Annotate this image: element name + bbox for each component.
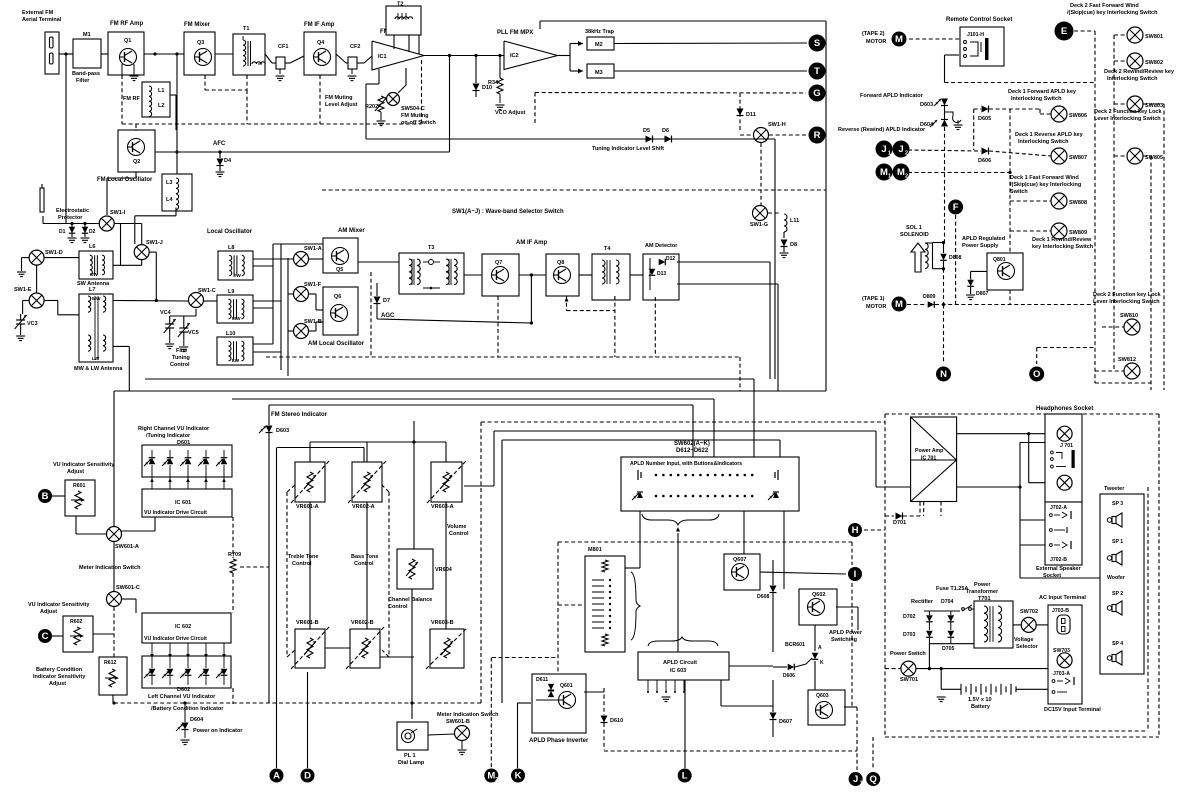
svg-text:D611: D611 xyxy=(536,677,548,683)
svg-text:Control: Control xyxy=(292,561,312,567)
svg-text:SW1-H: SW1-H xyxy=(768,122,786,128)
svg-text:D603: D603 xyxy=(276,428,289,434)
svg-text:D13: D13 xyxy=(657,271,666,277)
svg-text:BCR601: BCR601 xyxy=(785,642,805,648)
svg-text:K: K xyxy=(515,771,522,782)
svg-text:C: C xyxy=(42,631,49,642)
svg-text:Electrostatic: Electrostatic xyxy=(56,208,89,214)
svg-text:A: A xyxy=(818,645,822,651)
svg-text:2: 2 xyxy=(905,151,908,157)
svg-text:2: 2 xyxy=(905,174,908,180)
svg-text:Q4: Q4 xyxy=(317,40,325,46)
svg-text:SP 4: SP 4 xyxy=(1112,641,1123,647)
svg-text:L11: L11 xyxy=(790,218,799,224)
svg-text:D612~D622: D612~D622 xyxy=(676,448,709,454)
svg-text:VR602-A: VR602-A xyxy=(352,504,375,510)
svg-text:J: J xyxy=(898,144,903,155)
svg-text:L6: L6 xyxy=(89,244,95,250)
svg-text:APLD Power: APLD Power xyxy=(829,630,863,636)
svg-text:J703-B: J703-B xyxy=(1052,608,1069,614)
svg-text:Volume: Volume xyxy=(447,524,466,530)
svg-text:A: A xyxy=(273,771,280,782)
svg-text:MOTOR: MOTOR xyxy=(866,304,886,310)
svg-text:AM Detector: AM Detector xyxy=(645,243,678,249)
svg-text:MW: MW xyxy=(92,296,101,302)
svg-text:Interlocking Switch: Interlocking Switch xyxy=(1107,76,1158,82)
svg-text:FM RF Amp: FM RF Amp xyxy=(110,21,143,27)
svg-text:SOL 1: SOL 1 xyxy=(906,225,922,231)
svg-text:SW808: SW808 xyxy=(1069,200,1087,206)
svg-text:FM Muting: FM Muting xyxy=(325,95,353,101)
svg-text:PL 1: PL 1 xyxy=(404,753,416,759)
svg-text:T: T xyxy=(814,66,820,77)
svg-text:APLD Circuit: APLD Circuit xyxy=(663,660,697,666)
svg-text:SP 3: SP 3 xyxy=(1112,501,1123,507)
svg-text:Deck 1 Forward APLD key: Deck 1 Forward APLD key xyxy=(1008,89,1077,95)
svg-text:APLD Number Input, with Button: APLD Number Input, with Buttons&Indicato… xyxy=(630,461,742,467)
svg-text:Q: Q xyxy=(870,774,877,785)
svg-text:Deck 1 Reverse APLD key: Deck 1 Reverse APLD key xyxy=(1015,132,1084,138)
svg-text:M: M xyxy=(895,34,903,45)
svg-text:Fuse T1.25A: Fuse T1.25A xyxy=(936,586,968,592)
svg-text:1: 1 xyxy=(860,781,863,787)
svg-text:Battery Condition: Battery Condition xyxy=(36,667,83,673)
svg-text:D606: D606 xyxy=(783,673,795,679)
svg-text:D705: D705 xyxy=(942,646,955,652)
svg-text:/Battery Condition Indicator: /Battery Condition Indicator xyxy=(151,706,224,712)
svg-text:Reverse (Rewind) APLD Indicato: Reverse (Rewind) APLD Indicator xyxy=(838,127,926,133)
svg-text:MW: MW xyxy=(232,316,241,322)
svg-text:AM IF Amp: AM IF Amp xyxy=(516,240,547,246)
svg-text:Q602: Q602 xyxy=(812,592,825,598)
svg-text:D11: D11 xyxy=(746,112,756,118)
svg-text:Q2: Q2 xyxy=(133,159,140,165)
svg-text:Meter Indication Switch: Meter Indication Switch xyxy=(437,712,499,718)
svg-text:R602: R602 xyxy=(70,619,83,625)
svg-text:D702: D702 xyxy=(903,614,916,620)
svg-text:M: M xyxy=(897,167,905,178)
svg-text:SOLENOID: SOLENOID xyxy=(900,232,929,238)
svg-text:VR601-A: VR601-A xyxy=(296,504,319,510)
svg-text:CF1: CF1 xyxy=(278,44,288,50)
svg-text:SW810: SW810 xyxy=(1120,313,1138,319)
svg-text:APLD Regulated: APLD Regulated xyxy=(962,236,1005,242)
svg-text:SW806: SW806 xyxy=(1069,113,1087,119)
svg-text:VC5: VC5 xyxy=(188,330,199,336)
svg-text:T1: T1 xyxy=(243,26,249,32)
svg-text:IC1: IC1 xyxy=(378,54,387,60)
svg-text:SW702: SW702 xyxy=(1020,609,1038,615)
svg-text:J702-B: J702-B xyxy=(1050,557,1067,563)
svg-text:H: H xyxy=(852,525,859,536)
svg-text:Switching: Switching xyxy=(831,637,857,643)
svg-text:D7: D7 xyxy=(383,298,390,304)
svg-text:Band-pass: Band-pass xyxy=(72,71,100,77)
svg-text:T3: T3 xyxy=(428,245,434,251)
svg-text:D602: D602 xyxy=(177,687,190,693)
svg-text:1.5V x 10: 1.5V x 10 xyxy=(968,697,992,703)
svg-text:External FM: External FM xyxy=(22,10,54,16)
svg-text:Indicator Sensitivity: Indicator Sensitivity xyxy=(33,674,86,680)
svg-text:Adjust: Adjust xyxy=(49,681,66,687)
svg-text:L: L xyxy=(682,771,688,782)
svg-text:Rectifier: Rectifier xyxy=(911,599,934,605)
svg-text:SW1-A: SW1-A xyxy=(304,246,322,252)
svg-text:Forward APLD Indicator: Forward APLD Indicator xyxy=(860,93,924,99)
svg-text:VR602-B: VR602-B xyxy=(351,620,374,626)
svg-text:SW601-A: SW601-A xyxy=(115,544,139,550)
svg-text:Power Switch: Power Switch xyxy=(890,651,926,657)
svg-text:D2: D2 xyxy=(89,229,96,235)
svg-text:Deck 2 Function key Lock: Deck 2 Function key Lock xyxy=(1093,292,1161,298)
svg-text:L8: L8 xyxy=(228,245,234,251)
svg-text:IC 603: IC 603 xyxy=(670,668,686,674)
svg-text:D610: D610 xyxy=(610,718,623,724)
svg-text:Control: Control xyxy=(388,604,408,610)
svg-text:J 701: J 701 xyxy=(1060,443,1073,449)
svg-text:J703-A: J703-A xyxy=(1053,671,1070,677)
svg-text:IC2: IC2 xyxy=(510,53,519,59)
svg-text:D701: D701 xyxy=(893,520,906,526)
svg-text:Aerial Terminal: Aerial Terminal xyxy=(22,17,62,23)
svg-text:(TAPE 2): (TAPE 2) xyxy=(862,31,885,37)
svg-text:L7: L7 xyxy=(89,287,95,293)
svg-text:S: S xyxy=(814,38,820,49)
svg-text:Protector: Protector xyxy=(58,215,83,221)
svg-text:Q1: Q1 xyxy=(124,38,131,44)
svg-text:DC15V Input Terminal: DC15V Input Terminal xyxy=(1044,707,1101,713)
svg-text:M: M xyxy=(895,299,903,310)
svg-text:Deck 2 Function key Lock: Deck 2 Function key Lock xyxy=(1094,109,1162,115)
svg-text:D704: D704 xyxy=(941,599,954,605)
svg-text:D808: D808 xyxy=(949,255,962,261)
svg-text:SW: SW xyxy=(233,273,241,279)
svg-text:Remote Control Socket: Remote Control Socket xyxy=(946,17,1012,23)
svg-text:Power Amp: Power Amp xyxy=(915,448,943,454)
svg-text:/Tuning Indicator: /Tuning Indicator xyxy=(146,433,191,439)
svg-text:Q3: Q3 xyxy=(197,40,204,46)
svg-text:J101-H: J101-H xyxy=(967,32,984,38)
svg-text:D703: D703 xyxy=(903,632,916,638)
svg-text:D5: D5 xyxy=(643,128,650,134)
svg-text:FM Stereo Indicator: FM Stereo Indicator xyxy=(271,412,328,418)
svg-text:MOTOR: MOTOR xyxy=(866,39,886,45)
svg-text:SW1(A~J) : Wave-band Selector: SW1(A~J) : Wave-band Selector Switch xyxy=(452,209,564,215)
svg-text:Tuning Indicator Level Shift: Tuning Indicator Level Shift xyxy=(592,146,664,152)
svg-text:key Interlocking Switch: key Interlocking Switch xyxy=(1032,244,1094,250)
svg-text:D1: D1 xyxy=(59,229,66,235)
svg-text:Channel Balance: Channel Balance xyxy=(388,597,432,603)
svg-text:L10: L10 xyxy=(226,331,235,337)
svg-text:Level Adjust: Level Adjust xyxy=(325,102,358,108)
svg-text:J: J xyxy=(853,774,858,785)
svg-text:Left Channel VU Indicator: Left Channel VU Indicator xyxy=(148,694,216,700)
svg-text:VU Indicator Drive Circuit: VU Indicator Drive Circuit xyxy=(144,510,207,516)
svg-text:SW602(A~K): SW602(A~K) xyxy=(674,441,710,447)
svg-text:FM Muting: FM Muting xyxy=(401,113,429,119)
svg-text:Selector: Selector xyxy=(1016,644,1039,650)
svg-text:Filter: Filter xyxy=(76,78,90,84)
svg-text:SP 2: SP 2 xyxy=(1112,591,1123,597)
svg-text:Interlocking Switch: Interlocking Switch xyxy=(1011,96,1062,102)
svg-text:SW1-D: SW1-D xyxy=(45,250,63,256)
svg-text:Q601: Q601 xyxy=(560,683,573,689)
svg-text:Control: Control xyxy=(170,362,190,368)
svg-text:SW1-E: SW1-E xyxy=(14,287,32,293)
svg-text:Battery: Battery xyxy=(971,704,991,710)
svg-text:R612: R612 xyxy=(104,660,117,666)
svg-text:Right Channel VU Indicator: Right Channel VU Indicator xyxy=(138,426,210,432)
svg-text:Q607: Q607 xyxy=(733,557,746,563)
svg-text:VU Indicator Sensitivity: VU Indicator Sensitivity xyxy=(28,602,90,608)
svg-text:Tuning: Tuning xyxy=(172,355,190,361)
svg-text:AGC: AGC xyxy=(381,313,395,319)
svg-text:G: G xyxy=(813,88,820,99)
svg-text:R: R xyxy=(814,130,821,141)
svg-text:AM Mixer: AM Mixer xyxy=(338,228,365,234)
svg-text:SW805: SW805 xyxy=(1145,155,1163,161)
svg-text:FM RF: FM RF xyxy=(123,96,140,102)
svg-text:SW601-C: SW601-C xyxy=(116,585,140,591)
svg-text:R34: R34 xyxy=(488,80,499,86)
svg-text:1: 1 xyxy=(888,174,891,180)
svg-text:Fine: Fine xyxy=(176,348,187,354)
svg-text:SW1-I: SW1-I xyxy=(110,210,126,216)
svg-text:CF2: CF2 xyxy=(350,44,360,50)
svg-text:Power: Power xyxy=(974,582,991,588)
svg-text:Local Oscillator: Local Oscillator xyxy=(207,229,253,235)
svg-text:VR601-B: VR601-B xyxy=(296,620,319,626)
svg-text:Q7: Q7 xyxy=(495,260,502,266)
svg-text:AM Local Oscillator: AM Local Oscillator xyxy=(308,341,365,347)
svg-text:Meter Indication Switch: Meter Indication Switch xyxy=(79,565,141,571)
svg-text:D809: D809 xyxy=(923,294,936,300)
svg-text:D4: D4 xyxy=(224,158,232,164)
svg-text:T4: T4 xyxy=(604,246,611,252)
svg-text:External Speaker: External Speaker xyxy=(1036,566,1081,572)
svg-text:Tweeter: Tweeter xyxy=(1104,486,1125,492)
svg-text:R601: R601 xyxy=(73,483,86,489)
svg-text:Q8: Q8 xyxy=(557,260,564,266)
svg-text:SW809: SW809 xyxy=(1069,230,1087,236)
svg-text:R709: R709 xyxy=(228,552,241,558)
svg-text:L4: L4 xyxy=(166,197,173,203)
svg-text:SW807: SW807 xyxy=(1069,155,1087,161)
svg-text:J702-A: J702-A xyxy=(1050,505,1067,511)
svg-text:Q6: Q6 xyxy=(334,294,341,300)
svg-text:SW802: SW802 xyxy=(1145,60,1163,66)
svg-text:Interlocking Switch: Interlocking Switch xyxy=(1018,139,1069,145)
svg-text:VR603-A: VR603-A xyxy=(431,504,454,510)
svg-text:D608: D608 xyxy=(757,594,770,600)
svg-text:L9: L9 xyxy=(228,289,234,295)
svg-text:Bass Tone: Bass Tone xyxy=(351,554,378,560)
svg-text:SW1-C: SW1-C xyxy=(198,288,216,294)
svg-text:2: 2 xyxy=(495,777,498,783)
svg-text:Woofer: Woofer xyxy=(1107,575,1125,581)
svg-text:VU Indicator Sensitivity: VU Indicator Sensitivity xyxy=(53,462,115,468)
svg-text:O: O xyxy=(1033,369,1040,380)
svg-text:Switch: Switch xyxy=(1010,189,1028,195)
svg-text:VC4: VC4 xyxy=(160,310,172,316)
svg-text:IC 701: IC 701 xyxy=(921,456,936,462)
svg-text:IC 602: IC 602 xyxy=(175,624,191,630)
svg-text:(TAPE 1): (TAPE 1) xyxy=(862,296,885,302)
svg-text:Deck 1 Fast Forward Wind: Deck 1 Fast Forward Wind xyxy=(1010,175,1079,181)
svg-text:M: M xyxy=(487,771,495,782)
svg-text:/(Skip|cue) key Interlocking S: /(Skip|cue) key Interlocking Switch xyxy=(1067,10,1158,16)
svg-text:AC Input Terminal: AC Input Terminal xyxy=(1039,595,1086,601)
svg-text:D605: D605 xyxy=(978,116,991,122)
svg-text:Lever Interlocking Switch: Lever Interlocking Switch xyxy=(1093,299,1160,305)
svg-text:FM Mixer: FM Mixer xyxy=(184,22,211,28)
svg-text:D12: D12 xyxy=(666,256,675,262)
svg-text:Adjust: Adjust xyxy=(40,609,57,615)
svg-text:SW1-J: SW1-J xyxy=(146,240,163,246)
svg-text:Q801: Q801 xyxy=(993,257,1006,263)
svg-text:Treble Tone: Treble Tone xyxy=(288,554,318,560)
svg-text:D606: D606 xyxy=(978,158,991,164)
svg-text:SW801: SW801 xyxy=(1145,34,1163,40)
svg-text:Deck 2 Rewind/Review key: Deck 2 Rewind/Review key xyxy=(1104,69,1175,75)
svg-text:SW701: SW701 xyxy=(900,677,918,683)
svg-text:Transformer: Transformer xyxy=(966,589,999,595)
svg-text:L3: L3 xyxy=(166,180,172,186)
svg-text:VU Indicator Drive Circuit: VU Indicator Drive Circuit xyxy=(144,636,207,642)
svg-text:K: K xyxy=(820,660,824,666)
svg-text:Deck 1 Rewind/Review: Deck 1 Rewind/Review xyxy=(1032,237,1092,243)
svg-text:M3: M3 xyxy=(595,70,603,76)
svg-text:on-off Switch: on-off Switch xyxy=(401,120,436,126)
svg-text:38kHz Trap: 38kHz Trap xyxy=(585,29,615,35)
svg-text:SW601-B: SW601-B xyxy=(446,719,470,725)
svg-text:SP 1: SP 1 xyxy=(1112,539,1123,545)
svg-text:L1: L1 xyxy=(158,88,164,94)
svg-text:Q603: Q603 xyxy=(816,693,829,699)
svg-text:Lever Interlocking Switch: Lever Interlocking Switch xyxy=(1094,116,1161,122)
svg-text:D: D xyxy=(304,771,311,782)
svg-text:Control: Control xyxy=(354,561,374,567)
svg-text:PLL FM MPX: PLL FM MPX xyxy=(497,30,533,36)
svg-text:Dial Lamp: Dial Lamp xyxy=(398,760,425,766)
svg-text:M801: M801 xyxy=(588,547,602,553)
svg-text:IC 601: IC 601 xyxy=(175,500,191,506)
svg-text:Power on Indicator: Power on Indicator xyxy=(193,728,243,734)
svg-text:M: M xyxy=(880,167,888,178)
svg-text:D6: D6 xyxy=(662,128,669,134)
svg-text:D603: D603 xyxy=(920,102,933,108)
svg-text:VR603-B: VR603-B xyxy=(431,620,454,626)
svg-text:J: J xyxy=(881,144,886,155)
svg-text:Q5: Q5 xyxy=(336,267,343,273)
svg-text:Deck 2 Fast Forward Wind: Deck 2 Fast Forward Wind xyxy=(1070,3,1139,9)
svg-text:SW1-G: SW1-G xyxy=(750,222,768,228)
svg-text:SW1-F: SW1-F xyxy=(304,282,322,288)
svg-text:VC3: VC3 xyxy=(27,321,38,327)
svg-text:/(Skip|cue) key Interlocking: /(Skip|cue) key Interlocking xyxy=(1010,182,1081,188)
svg-text:SW: SW xyxy=(90,272,98,278)
svg-text:LW: LW xyxy=(232,358,240,364)
svg-text:D807: D807 xyxy=(976,291,989,297)
svg-text:M2: M2 xyxy=(595,42,603,48)
svg-text:APLD Phase Inverter: APLD Phase Inverter xyxy=(529,738,589,744)
svg-text:E: E xyxy=(1061,26,1067,37)
svg-text:B: B xyxy=(42,491,49,502)
svg-text:D604: D604 xyxy=(190,717,204,723)
svg-text:Voltage: Voltage xyxy=(1014,637,1033,643)
svg-text:D8: D8 xyxy=(790,242,797,248)
svg-text:F: F xyxy=(953,202,959,213)
svg-text:VR604: VR604 xyxy=(435,567,453,573)
svg-text:VCO Adjust: VCO Adjust xyxy=(495,110,526,116)
svg-text:FM IF Amp: FM IF Amp xyxy=(304,22,335,28)
svg-text:Adjust: Adjust xyxy=(67,469,84,475)
svg-text:1: 1 xyxy=(888,151,891,157)
svg-text:Control: Control xyxy=(449,531,469,537)
svg-text:AFC: AFC xyxy=(213,141,226,147)
svg-text:LW: LW xyxy=(92,356,100,362)
svg-text:M1: M1 xyxy=(83,32,91,38)
svg-text:Power Supply: Power Supply xyxy=(962,243,999,249)
svg-text:N: N xyxy=(940,369,947,380)
svg-text:I: I xyxy=(854,569,857,580)
svg-text:L2: L2 xyxy=(158,103,164,109)
svg-text:D607: D607 xyxy=(779,719,792,725)
svg-text:SW812: SW812 xyxy=(1118,357,1136,363)
svg-text:Headphones Socket: Headphones Socket xyxy=(1036,406,1093,412)
svg-text:MW & LW Antenna: MW & LW Antenna xyxy=(74,366,123,372)
